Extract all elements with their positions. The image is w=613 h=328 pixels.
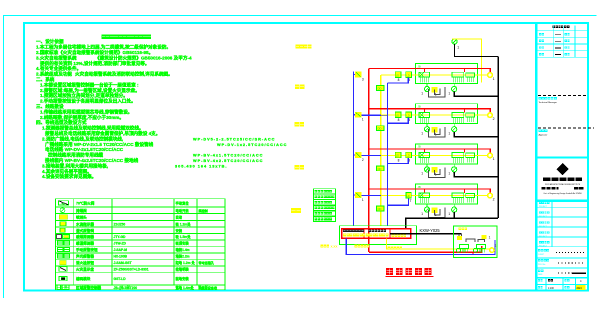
svg-text:J-SAM-GST: J-SAM-GST [114,261,132,265]
svg-text:WP-BV-4x1.5TC20/CC/ACC: WP-BV-4x1.5TC20/CC/ACC [193,154,263,158]
fire display panel DD 2F [377,166,384,171]
amp module yellow [457,236,462,240]
detector terminal strip B 3F [452,112,464,117]
strip A pins 4F [420,77,422,83]
panel label green [343,230,346,233]
legend row 10 symbol 消火栓按钮 [60,260,67,265]
addr module yellow box 2F [431,167,437,173]
black loop outer 1F [429,208,445,218]
project row label 工程名称 [539,202,541,204]
wire yellow floor line 3F [381,114,488,116]
svg-text:LD: LD [407,155,410,158]
black loop inner 3F [434,129,440,135]
room label center [355,245,358,248]
black loop inner 4F [434,89,440,95]
floor indicator lamp 2F [488,153,493,158]
detector terminal strip A 2F [419,153,430,158]
svg-text:1: 1 [421,91,423,95]
svg-text:WP-BV-4x2.5TC20/CC/ACC: WP-BV-4x2.5TC20/CC/ACC [193,159,263,163]
floor indicator lamp 4F [488,73,493,78]
wire blue link button 3F [361,154,388,156]
svg-text:手动报警按钮: 手动报警按钮 [76,247,98,252]
svg-text:1: 1 [362,198,364,202]
svg-text:2: 2 [493,197,495,201]
svg-text:1: 1 [448,172,450,176]
svg-text:声光报警器: 声光报警器 [75,254,94,259]
loop module LD1 3F [395,112,401,118]
certificate line [542,187,559,190]
panel divider 2 [389,229,391,239]
panel black band [390,233,462,235]
svg-text:1:100: 1:100 [548,288,554,290]
amp wiring grey arc 2 [478,240,484,242]
svg-text:WP-DV5-2-2.5TC25/CC/SR-ACC: WP-DV5-2-2.5TC25/CC/SR-ACC [193,137,275,141]
black loop inner 1F [434,209,440,215]
fire display panel DD 3F [377,126,384,131]
notes title [102,35,106,39]
wire black roof drop [455,44,499,56]
svg-text:1: 1 [448,212,450,216]
signature label 2 [539,129,542,132]
wire green drop to sounder A 4F [426,83,428,86]
sign row divider 1 [536,257,589,259]
title block top table header [553,26,555,28]
wire blue link module 2F [388,158,409,164]
wire green drop to sounder B 4F [453,83,455,86]
wire blue link module 1F [388,199,409,206]
wire green drop to sounder A 3F [426,123,428,126]
wire red tap to detector group A 3F [423,109,425,113]
sounder B 1F [452,207,457,212]
wire red tap to detector group B 4F [464,69,466,73]
svg-text:吸顶安装: 吸顶安装 [176,241,190,246]
svg-text:PROJ No.: PROJ No. [538,264,546,266]
wire black floor drop 2F [454,172,498,177]
amp lamp yellow circle [490,248,494,252]
legend row 13 symbol 区域报警控制器 [57,285,69,290]
project row label 图纸名称 [539,221,541,223]
svg-text:JTW-ZD: JTW-ZD [114,242,127,246]
svg-text:PROJECT: PROJECT [539,246,547,248]
wire blue link module 4F [388,77,409,83]
legend row 4 symbol 水流指示器 [60,222,66,226]
fire display panel DD 1F [377,206,384,211]
title block divider upper [536,156,589,158]
title block left border [535,23,537,291]
svg-text:1: 1 [493,77,495,81]
svg-text:70℃防火阀: 70℃防火阀 [76,200,95,205]
amp wiring grey arc 1 [466,239,475,242]
svg-text:LD: LD [396,74,399,77]
loop module LD 1F [406,192,411,198]
floor zone box 3F [416,104,478,124]
wire green drop to sounder B 3F [453,123,455,126]
svg-text:水流指示器: 水流指示器 [75,221,94,226]
svg-text:距地 1.2m 处: 距地 1.2m 处 [176,260,196,265]
legend row 2 symbol 排烟阀 [60,208,65,213]
svg-text:1: 1 [448,91,450,95]
wire yellow panel out [387,238,490,249]
svg-text:PROJECT: PROJECT [539,206,547,208]
svg-text:PROJECT: PROJECT [539,236,547,238]
strip A pins 1F [420,198,422,204]
loop module LD2 3F [406,112,412,118]
wire black floor drop 3F [454,132,498,137]
svg-text:XXXX ARCHITECTURAL DESIGN I: XXXX ARCHITECTURAL DESIGN INSTITUTE [545,183,581,186]
svg-text:挂墙明装: 挂墙明装 [176,267,190,272]
title block top table grid [538,26,588,58]
svg-text:吸 1.5m处: 吸 1.5m处 [176,234,192,239]
svg-text:就地安装: 就地安装 [176,276,190,281]
amp box yellow label [459,227,462,230]
svg-text:JB: JB [418,185,421,189]
title block divider lower [536,200,589,202]
svg-text:JB: JB [418,105,421,109]
sounder B 3F [452,127,457,132]
inner drawing frame [24,23,588,291]
fire display panel DD 4F [377,86,384,91]
svg-text:305.430 164 13x7B.: 305.430 164 13x7B. [175,164,227,168]
svg-text:落地 1.4m处: 落地 1.4m处 [176,285,195,290]
strip B pins 3F [452,117,454,123]
wire green drop to sounder B 2F [453,164,455,167]
floor label 1F [291,208,296,213]
legend row 1 symbol 70℃防火阀 [59,201,69,205]
svg-text:DD: DD [378,127,382,131]
black loop outer 4F [429,87,445,97]
wire blue panel out [346,238,495,254]
svg-text:1: 1 [421,212,423,216]
speaker unit A [460,245,469,249]
svg-text:8: 8 [398,118,400,122]
strip B pins 2F [452,158,454,164]
legend row 6 symbol 感烟探测器 [57,235,62,239]
project rows grid [536,201,589,247]
roof speaker S0 [452,39,457,44]
sounder B 4F [452,86,457,91]
svg-text:墙装1.4m: 墙装1.4m [176,247,190,252]
wire red riser (alarm bus) [368,69,370,253]
detector terminal strip B 2F [452,153,464,158]
wire red tap to detector group B 2F [464,149,466,153]
svg-text:1: 1 [457,46,459,50]
svg-text:带电话插孔: 带电话插孔 [199,260,215,265]
detector terminal strip B 1F [452,193,464,198]
svg-text:1: 1 [489,236,491,240]
signature dashed line 2 [538,127,594,129]
legend row 7 symbol 感温探测器 [58,241,64,245]
svg-text:1: 1 [421,172,423,176]
black loop outer 2F [429,167,445,177]
sounder A 1F [425,207,430,212]
wire blue riser inner [387,83,389,226]
wire red panel out [369,246,482,252]
svg-text:安装: 安装 [176,228,183,233]
addr module yellow box 3F [431,127,437,133]
wire black floor drop 4F [454,92,498,97]
wire yellow floor line 2F [381,154,488,156]
svg-text:Approver: Approver [539,134,548,137]
svg-text:JTY-GD: JTY-GD [114,235,127,239]
floor indicator lamp 1F [488,193,493,198]
manual call button 2F [355,152,361,158]
svg-text:图 例: 图 例 [60,285,68,290]
bottom section grid [536,278,589,291]
panel divider 1 [363,229,365,239]
legend row 9 symbol 声光报警器 [58,254,64,258]
legend row 5 symbol 湿式报警阀 [60,228,65,232]
wire green drop to sounder A 1F [426,204,428,207]
strip A pins 3F [420,117,422,123]
svg-text:4.设备安装要求详见图集。: 4.设备安装要求详见图集。 [42,173,96,180]
sign row 2 [538,259,541,262]
svg-text:ZF-Z500/GST+LD-8301: ZF-Z500/GST+LD-8301 [114,268,149,272]
sounder A 4F [425,86,430,91]
company name [543,178,582,182]
svg-text:1: 1 [421,132,423,136]
svg-text:8: 8 [398,158,400,162]
floor label roof [296,44,300,48]
revision yellow cell [576,285,586,290]
svg-text:湿式报警阀: 湿式报警阀 [76,228,94,233]
svg-text:墙装2.2m: 墙装2.2m [176,254,190,259]
riser label 1 [313,189,335,194]
svg-text:Cert. of Engineering Design: Cert. of Engineering Design Grade A No.1… [543,192,581,195]
svg-text:ZSJZ50: ZSJZ50 [114,222,126,226]
svg-text:感烟探测器: 感烟探测器 [76,234,94,239]
fire alarm control panel [342,229,411,239]
svg-text:感温探测器: 感温探测器 [76,241,94,246]
svg-text:DD: DD [378,86,382,90]
svg-text:1: 1 [495,244,497,248]
svg-text:区域报警控制器: 区域报警控制器 [76,285,102,290]
wire red floor line 1F [369,189,491,193]
svg-text:排烟阀: 排烟阀 [76,208,87,213]
svg-text:DD: DD [378,167,382,171]
svg-text:LD: LD [396,155,399,158]
strip A pins 2F [420,158,422,164]
drawing title underline [386,275,434,277]
detector terminal strip A 4F [419,72,430,77]
wire green drop to sounder B 1F [453,204,455,207]
addr module yellow box 1F [431,207,437,213]
signature dashed line 1 [538,94,587,96]
svg-text:2: 2 [362,158,364,162]
title table row 3 labels [539,46,541,48]
legend table grid [56,199,225,290]
wire black trunk to panel [406,218,498,229]
svg-text:LD: LD [396,115,399,118]
floor zone box 1F [416,184,478,204]
project row label 设计阶段 [539,231,541,233]
amplifier green box [454,226,498,258]
wire blue link module 3F [388,118,409,124]
svg-text:共 1 张: 共 1 张 [120,285,131,290]
wire black floor drop 1F [453,212,455,217]
legend row 8 symbol 手动报警按钮 [58,248,64,252]
outer border top line [3,14,597,16]
wire red tap to detector group A 4F [423,69,425,73]
svg-text:8: 8 [398,78,400,82]
loop module LD2 2F [406,152,412,158]
speaker unit B [477,245,486,249]
bottom labels row 2 [538,286,540,288]
svg-text:1: 1 [448,132,450,136]
svg-text:Technical Manager: Technical Manager [539,101,558,104]
svg-text:JB: JB [418,64,421,68]
sign row 3 [538,269,541,272]
black loop outer 3F [429,127,445,137]
addr module yellow box 4F [431,87,437,93]
wire yellow floor line 1F [381,195,488,197]
svg-text:自动: 自动 [176,215,183,220]
floor indicator lamp 3F [488,113,493,118]
svg-text:GST-LD: GST-LD [114,277,127,281]
manual call button 1F [355,192,361,198]
svg-text:火灾显示盘: 火灾显示盘 [75,267,94,272]
svg-text:喷淋头: 喷淋头 [76,215,87,220]
company logo diamond [557,163,569,175]
wire yellow floor line 4F [381,74,488,76]
svg-text:LD: LD [407,74,410,77]
signature label 1 [539,97,542,100]
drawing title [386,268,393,275]
svg-text:WP-DV-1x2.5TC20/CC/ACC: WP-DV-1x2.5TC20/CC/ACC [217,143,287,147]
svg-text:1: 1 [493,157,495,161]
wire blue link button 2F [361,195,388,197]
sounder B 2F [452,167,457,172]
detector terminal strip B 4F [452,72,464,77]
wire blue link button 4F [361,114,388,116]
svg-text:消火栓按钮: 消火栓按钮 [76,260,94,265]
svg-text:阀控制: 阀控制 [199,208,208,213]
sounder A 3F [425,127,430,132]
svg-text:2: 2 [493,117,495,121]
legend row 12 symbol 编码模块 [59,276,67,280]
svg-text:手动复位: 手动复位 [176,200,190,205]
loop module LD1 2F [395,152,401,158]
svg-text:3: 3 [362,78,364,82]
bottom section divider [536,277,589,279]
room label right [388,247,391,250]
svg-text:第 1 张: 第 1 张 [198,285,209,290]
room label left [321,245,324,248]
title table row 2 labels [539,40,541,42]
red tap in amp box [472,252,474,254]
svg-text:T: T [410,199,412,203]
wire black trunk vertical [497,57,499,219]
loop module LD2 4F [406,72,412,78]
riser label 6 [313,216,335,221]
wire red floor line 4F [369,69,491,73]
svg-text:PROJECT: PROJECT [539,226,547,228]
strip B pins 1F [452,198,454,204]
sign row 1 [538,249,541,252]
riser label 4 [313,205,335,210]
wire red tap to detector group B 3F [464,109,466,113]
panel label yellow [343,233,346,236]
black loop inner 2F [434,169,440,175]
detector terminal strip A 3F [419,112,430,117]
project row label 子项名称 [539,211,541,213]
wire red floor line 2F [369,149,491,153]
svg-text:1: 1 [362,118,364,122]
strip B pins 4F [452,77,454,83]
floor label 4F [295,84,300,89]
amp module A yellow [482,235,487,239]
svg-text:DD: DD [378,207,382,211]
manual call button 4F [355,72,361,78]
manual call button 3F [355,112,361,118]
floor label 2F [295,165,300,170]
svg-text:吸 1.2m处: 吸 1.2m处 [176,221,192,226]
floor zone box 4F [416,64,478,84]
detector terminal strip A 1F [419,193,430,198]
wire blue riser (manual call button loop) [352,72,354,226]
svg-text:HX-100B: HX-100B [114,255,128,259]
legend row 3 symbol 喷淋头 [59,215,68,220]
sounder A 2F [425,167,430,172]
svg-text:电动开启: 电动开启 [176,208,189,213]
loop module LD1 4F [395,72,401,78]
svg-text:CLIENT: CLIENT [538,254,544,256]
outer border left line [2,15,4,298]
wire red tap to detector group A 2F [423,149,425,153]
svg-text:X.XX: X.XX [331,245,338,249]
svg-text:PROJECT: PROJECT [539,216,547,218]
svg-text:KXW-Y025: KXW-Y025 [420,228,441,233]
wire red tap to detector group B 1F [464,189,466,193]
wire red tap to detector group A 1F [423,189,425,193]
sign row divider 2 [536,267,589,269]
svg-text:火灾自动报警系统及消防联动控制,详见系统图。: 火灾自动报警系统及消防联动控制,详见系统图。 [75,71,173,78]
black stub to amp box [458,234,460,236]
svg-text:LD: LD [407,195,410,198]
svg-text:编码模块: 编码模块 [76,276,91,281]
wire green drop to sounder A 2F [426,164,428,167]
legend row 11 symbol 火灾显示盘 [59,267,67,271]
title table row 1 labels [539,33,541,35]
svg-text:JB: JB [418,145,421,149]
svg-text:2024: 2024 [577,288,583,290]
wire yellow roof feed [452,39,481,83]
wire yellow riser (broadcast bus) [380,75,382,226]
riser label 2 [313,194,335,199]
title table row 4 labels [539,53,541,55]
control room green box [339,226,416,245]
project row label 专业负责 [539,241,541,243]
bottom labels row 1 [538,279,540,281]
riser label 3 [313,200,335,205]
floor zone box 2F [416,144,478,164]
floor label 3F [295,122,300,127]
wire red floor line 3F [369,109,491,113]
riser label 5 [313,211,335,216]
svg-text:LD: LD [407,115,410,118]
svg-text:J-SAP-M: J-SAP-M [114,248,128,252]
